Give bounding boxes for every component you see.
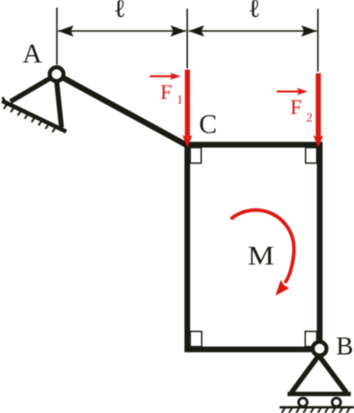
dimension extension line above C <box>186 9 188 69</box>
support A triangle left leg <box>11 76 55 102</box>
dimension line l (left span) <box>58 25 186 36</box>
support A ground end tick <box>3 97 7 104</box>
support A triangle right leg <box>56 78 61 128</box>
svg-text:F: F <box>290 95 302 119</box>
dimension extension line above A <box>56 8 58 65</box>
svg-text:C: C <box>199 109 217 139</box>
force F1 arrow <box>182 70 192 148</box>
support B ground line <box>280 406 354 408</box>
right-angle marker bottom-left <box>190 331 202 346</box>
right-angle marker top-left <box>190 148 201 164</box>
moment M arrowhead <box>275 280 289 296</box>
force F2 arrow <box>313 73 323 147</box>
dimension extension line above F2 <box>317 9 319 72</box>
dimension line l (right span) <box>189 25 317 36</box>
support B ground hatching <box>282 408 350 413</box>
roller left <box>299 398 308 407</box>
right-angle marker bottom-right <box>305 331 317 346</box>
bar A-C <box>57 74 189 146</box>
roller right <box>332 398 341 407</box>
pin A <box>50 67 64 81</box>
svg-text:B: B <box>336 332 353 361</box>
svg-text:2: 2 <box>306 111 312 125</box>
moment M arc <box>231 210 294 283</box>
svg-text:ℓ: ℓ <box>114 0 126 23</box>
F2 direction arrow <box>277 88 308 95</box>
right-angle marker top-right <box>306 148 317 164</box>
support B base line <box>288 392 351 396</box>
label F2 <box>290 95 312 125</box>
support B triangle <box>292 356 347 393</box>
svg-text:F: F <box>160 80 172 104</box>
svg-text:ℓ: ℓ <box>248 0 260 23</box>
pin B <box>313 342 327 356</box>
svg-text:M: M <box>248 240 274 270</box>
svg-text:A: A <box>23 38 43 68</box>
svg-text:1: 1 <box>177 93 183 107</box>
support A ground hatching <box>4 103 56 132</box>
label F1 <box>160 80 183 107</box>
support A ground line <box>2 101 66 132</box>
frame rectangle C-B <box>187 145 319 350</box>
F1 direction arrow <box>150 73 181 80</box>
